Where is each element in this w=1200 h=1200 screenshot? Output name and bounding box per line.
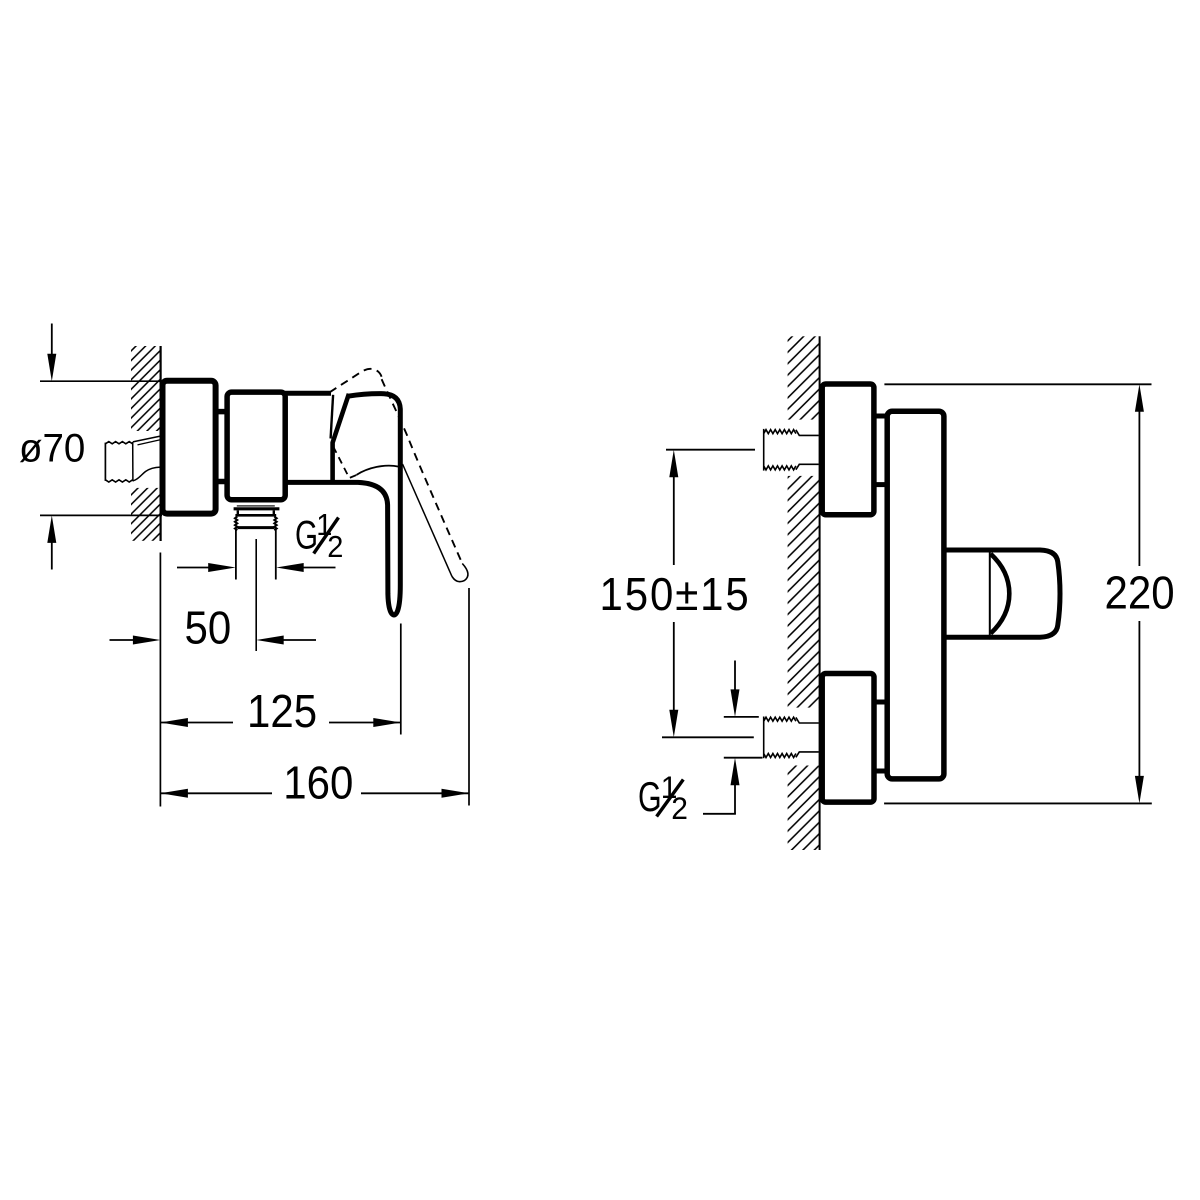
- upper wall flange (right view): [822, 384, 874, 515]
- G1/2 threaded nipple (left view): [235, 517, 277, 531]
- dimension ø70 extension lines: [40, 381, 162, 515]
- label ø70: [19, 427, 85, 471]
- outlet tube sides (left view): [236, 529, 276, 579]
- svg-text:50: 50: [185, 603, 232, 654]
- svg-text:220: 220: [1105, 568, 1175, 619]
- wall flange / escutcheon (left view): [163, 381, 216, 514]
- mixer body vertical slab (right view): [887, 411, 944, 779]
- dimension 125 line and arrows: [160, 718, 400, 727]
- outlet center line (left view): [255, 539, 257, 651]
- dimension 150±15 line and arrows: [669, 450, 678, 738]
- wall hatching right view (bottom part): [788, 766, 820, 851]
- wall hatching left view (upper part): [131, 346, 160, 431]
- G1/2 leader line (right view): [703, 813, 736, 815]
- wall hatching right view (top part): [788, 336, 820, 419]
- wall face line left view: [160, 346, 162, 541]
- label 220: [1105, 568, 1175, 619]
- dimension ø70 lower arrow: [47, 515, 56, 569]
- wall face line right view: [819, 336, 821, 850]
- dimension 50 arrows: [110, 636, 317, 645]
- svg-text:125: 125: [247, 686, 317, 737]
- svg-text:ø70: ø70: [19, 427, 85, 471]
- supply union cone to wall (left view): [133, 436, 161, 481]
- phantom tip extension line (for 160): [468, 588, 470, 806]
- label G1/2 (left view): [295, 508, 343, 564]
- svg-text:160: 160: [283, 758, 353, 809]
- dimension ø70 upper arrow: [47, 324, 56, 382]
- lower supply fitting G1/2 (right view): [764, 717, 819, 759]
- dimension 220 extension lines: [884, 384, 1152, 803]
- G1/2 tolerance ticks (right view): [724, 717, 763, 758]
- valve neck top edge (left view): [283, 391, 331, 396]
- svg-text:150±15: 150±15: [600, 569, 751, 620]
- outlet collar under body (left view): [234, 506, 280, 515]
- wall face extension line (left view, goes down): [159, 553, 161, 807]
- label G1/2 (right view): [638, 769, 688, 826]
- label 50: [185, 603, 232, 654]
- wall hatching right view (middle part): [788, 476, 820, 708]
- dimension 150±15 extension lines: [662, 450, 755, 738]
- handle tip extension line (for 125): [400, 624, 402, 735]
- connector tabs flange-to-body (right view): [876, 416, 886, 771]
- connector tabs flange-to-body (left view): [218, 412, 226, 482]
- svg-text:2: 2: [327, 530, 343, 564]
- handle grip underside thin contour (left view): [357, 466, 399, 475]
- notch thin line at handle root (left view): [331, 395, 334, 439]
- handle stem (right view): [946, 550, 991, 637]
- label 160: [283, 758, 353, 809]
- lower wall flange (right view): [822, 674, 874, 803]
- label 125: [247, 686, 317, 737]
- supply union threaded block (behind wall, left view): [105, 442, 132, 482]
- upper supply fitting G1/2 (right view): [764, 429, 819, 471]
- lever handle solid outline (left view): [283, 394, 400, 615]
- handle knob (right view): [990, 550, 1060, 637]
- dimension 160 line and arrows: [160, 789, 469, 798]
- wall hatching left view (lower part): [131, 488, 160, 541]
- mixer body (left view): [227, 392, 285, 500]
- phantom handle raised position (dashed, left view): [330, 369, 468, 582]
- svg-text:2: 2: [671, 790, 688, 826]
- G1/2 arrows (right view): [731, 661, 740, 814]
- dimension G1/2 arrows (left view): [177, 563, 336, 572]
- dimension 220 line and arrows: [1135, 384, 1144, 803]
- label 150±15: [600, 569, 751, 620]
